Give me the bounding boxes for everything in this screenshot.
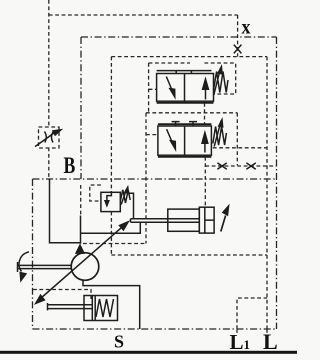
pilot line below throttle to port B <box>48 148 50 179</box>
plugged ports line <box>205 165 276 167</box>
regulator valve internal path <box>107 193 112 201</box>
pilot spring chamber line <box>213 147 267 149</box>
pilot header horizontal <box>111 56 267 58</box>
port L1 stub <box>236 329 238 333</box>
regulator valve body <box>101 192 120 211</box>
throttle valve dashed box <box>39 127 60 148</box>
regulator valve adjust arrow <box>121 189 126 205</box>
valve V1 body <box>157 74 214 102</box>
valve V2 pilot header <box>146 112 237 114</box>
pump outlet riser solid <box>80 216 82 244</box>
pilot line below regulator valve <box>110 212 112 255</box>
pilot spring line V2 right <box>236 113 238 166</box>
regulator valve pilot bracket <box>90 185 101 201</box>
plugged port symbol 1 <box>217 163 226 169</box>
valve V1 pilot left vertical <box>148 63 150 113</box>
servo feed line from regulator <box>128 193 134 219</box>
bias cylinder body <box>84 296 118 321</box>
valve V2 body <box>158 126 212 155</box>
feedback bracket <box>81 222 141 233</box>
port B line <box>50 179 81 243</box>
valve V1 spring <box>214 72 229 93</box>
valve V2 left position arrow <box>167 129 173 142</box>
pilot line to regulator valve <box>110 57 112 192</box>
port L stub <box>266 329 268 333</box>
valve V1 spring adjust arrow <box>214 68 221 95</box>
bias piston rod <box>48 303 93 310</box>
drive shaft <box>18 262 72 272</box>
bias spring <box>96 299 114 317</box>
enclosure top edge <box>81 36 277 38</box>
drain ports box <box>237 298 267 329</box>
pump circle <box>71 253 99 281</box>
pilot branch to pump outlet <box>83 243 146 245</box>
pilot drain line <box>111 254 267 256</box>
valve V2 right position arrow <box>204 142 206 153</box>
svg-text:L: L <box>263 329 278 354</box>
svg-text:x: x <box>242 17 251 39</box>
swashplate variable arrow <box>37 223 127 302</box>
valve V1 pilot box top <box>149 62 190 64</box>
servo cylinder piston box <box>199 207 214 233</box>
enclosure lower-left edge <box>32 179 34 329</box>
enclosure mid horizontal boundary <box>33 178 277 180</box>
valve V2 left port stub <box>146 134 158 136</box>
bias piston lines <box>92 296 95 321</box>
valve V2 spring <box>213 127 227 146</box>
pilot right vertical <box>266 57 268 329</box>
enclosure upper-left edge <box>80 37 82 179</box>
pilot line top horizontal <box>49 14 238 16</box>
bias piston pilot line <box>33 290 91 300</box>
pilot line to port X vertical from top <box>48 0 50 127</box>
servo cylinder body <box>168 209 200 231</box>
pilot LS line down <box>145 113 147 244</box>
pilot drop to plugged port x <box>237 15 239 57</box>
enclosure bottom edge <box>33 328 277 330</box>
plugged port symbol 2 <box>246 163 255 169</box>
suction line to port S <box>83 281 140 330</box>
enclosure right edge <box>276 37 278 329</box>
svg-text:S: S <box>114 332 124 352</box>
throttle adjust arrow <box>35 133 54 147</box>
pump outlet riser dashed <box>80 185 82 215</box>
valve V1 left port stub <box>149 88 157 90</box>
servo piston rod <box>131 219 200 223</box>
valve V2 port T symbols <box>172 122 197 126</box>
regulator valve spring <box>120 190 130 203</box>
rotation arrow <box>19 252 29 272</box>
servo stroke arrow <box>221 216 226 232</box>
svg-text:B: B <box>64 153 76 178</box>
valve V1 spring pilot box <box>204 63 235 94</box>
plugged port x symbol <box>234 45 242 54</box>
bottom rule <box>0 351 297 354</box>
servo piston line <box>205 207 214 233</box>
pilot line valve V2 to servo piston <box>204 157 206 208</box>
valve V1 left position arrow <box>166 77 172 91</box>
pump outlet triangle <box>75 243 85 254</box>
valve V1 top cap line <box>157 70 212 72</box>
throttle orifice arcs <box>45 132 54 143</box>
pilot link V1 to V2 <box>204 103 206 124</box>
valve V1 right position arrow <box>205 88 207 100</box>
valve V1 port ticks <box>176 71 191 74</box>
valve V2 spring adjust arrow <box>214 121 221 147</box>
